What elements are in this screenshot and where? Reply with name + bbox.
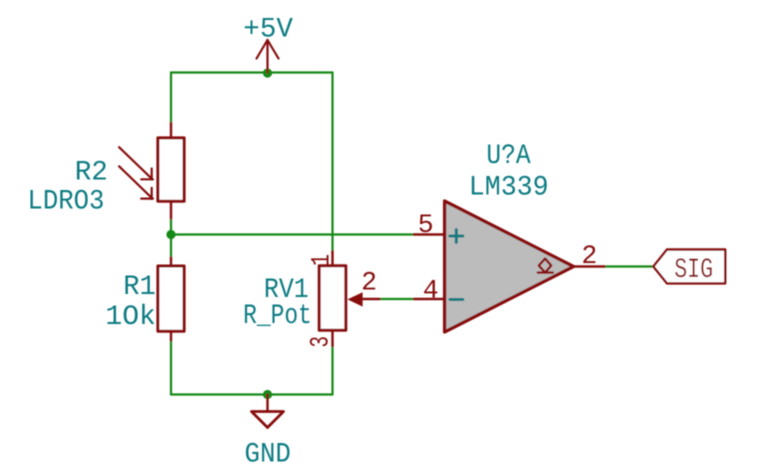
svg-text:+5V: +5V: [243, 14, 293, 45]
op-amp output pin 2: [574, 265, 605, 267]
wire node A down to R1 top: [170, 235, 172, 258]
op-amp non-inverting input pin 5: [414, 233, 445, 235]
wire bottom horizontal ground rail: [171, 393, 333, 395]
svg-text:U?A: U?A: [486, 141, 530, 172]
junction node A divider midpoint: [166, 230, 175, 239]
resistor R2 light arrow 2: [119, 166, 153, 199]
svg-text:2: 2: [361, 267, 377, 297]
junction node ground rail: [263, 390, 272, 399]
op-amp plus marker: [450, 230, 463, 243]
svg-text:5: 5: [418, 210, 434, 240]
svg-text:GND: GND: [245, 440, 291, 468]
wire comparator output to SIG label: [605, 265, 654, 267]
resistor R2 light arrow 1: [119, 147, 153, 179]
svg-text:SIG: SIG: [674, 255, 713, 286]
resistor R2 photoresistor body: [158, 123, 184, 219]
wire RV1 wiper to comparator inverting input: [380, 298, 415, 300]
resistor R1 body: [158, 258, 184, 341]
wire RV1 pin 3 to ground rail: [331, 346, 333, 395]
op-amp U1 comparator triangle: [445, 201, 574, 332]
svg-text:R1: R1: [123, 272, 156, 303]
svg-text:4: 4: [423, 275, 439, 305]
wire R1 bottom to ground rail: [170, 341, 172, 395]
ground: [252, 395, 284, 428]
wire left vertical from rail to R2: [170, 73, 172, 124]
potentiometer RV1 body: [319, 251, 346, 346]
op-amp inverting input pin 4: [414, 298, 445, 300]
svg-text:R_Pot: R_Pot: [243, 301, 312, 332]
svg-text:LDRO3: LDRO3: [28, 187, 105, 218]
wire R2 bottom to node A: [170, 219, 172, 235]
wire right vertical from rail to RV1 pin 1: [331, 73, 333, 252]
svg-text:R2: R2: [75, 158, 108, 189]
net label SIG flag: [653, 250, 725, 284]
svg-text:LM339: LM339: [469, 172, 549, 203]
svg-text:3: 3: [306, 336, 336, 348]
wire top horizontal +5V rail: [171, 71, 333, 73]
junction node +5V rail: [263, 68, 272, 77]
svg-text:2: 2: [581, 241, 597, 271]
wire node A to comparator non-inverting input: [171, 233, 414, 235]
svg-text:1Ok: 1Ok: [105, 302, 156, 333]
potentiometer RV1 wiper arrow: [348, 292, 380, 306]
op-amp minus marker: [450, 298, 463, 301]
svg-text:1: 1: [307, 254, 337, 266]
power symbol +5V: [257, 40, 279, 73]
op-amp open-collector diamond: [538, 259, 553, 273]
